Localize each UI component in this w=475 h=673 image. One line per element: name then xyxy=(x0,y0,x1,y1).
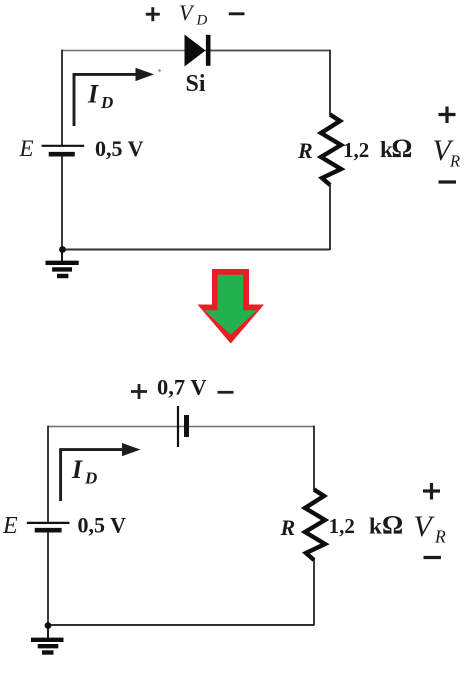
ground (circuit B) xyxy=(31,625,64,653)
resistor R (circuit A zigzag) xyxy=(321,115,341,186)
svg-text:0,5 V: 0,5 V xyxy=(95,136,144,161)
svg-text:Ω: Ω xyxy=(382,510,403,540)
svg-text:k: k xyxy=(369,514,382,539)
svg-text:D: D xyxy=(100,93,113,112)
battery E (circuit B) xyxy=(27,523,70,530)
label 0,5 V (circuit A) xyxy=(95,136,144,161)
node: ground junction (circuit A) xyxy=(59,246,66,253)
resistor R (circuit B zigzag) xyxy=(305,490,325,561)
battery 0,7 V in top wire (circuit B) xyxy=(178,406,187,447)
label I_D (circuit B) xyxy=(71,455,97,488)
label: minus sign of V_R (circuit B) xyxy=(424,556,442,559)
wire: circuit B bottom xyxy=(48,624,314,626)
wire: circuit A right (split by resistor R) xyxy=(329,50,331,250)
svg-text:R: R xyxy=(434,527,446,547)
wire: circuit B right (split by resistor R) xyxy=(313,426,315,626)
label E (circuit B) xyxy=(2,513,18,539)
diode D1 (Si) xyxy=(185,35,209,67)
label 1,2 kOhm (circuit B) xyxy=(329,510,404,540)
svg-text:Si: Si xyxy=(186,71,206,97)
label V_D xyxy=(179,0,208,29)
svg-text:E: E xyxy=(2,513,18,539)
label: minus sign of 0,7 V (circuit B) xyxy=(218,391,234,394)
label: minus sign of V_D xyxy=(229,12,245,15)
label: plus sign of V_R (circuit B) xyxy=(423,483,440,500)
svg-text:R: R xyxy=(297,138,313,163)
label 0,5 V (circuit B) xyxy=(78,513,127,538)
wire: circuit A left (split by battery E) xyxy=(61,50,63,250)
wire: circuit A top (left node to diode to right corner) xyxy=(62,50,330,52)
node: ground junction (circuit B) xyxy=(45,622,52,629)
svg-text:R: R xyxy=(449,152,460,171)
label: plus sign of 0,7 V (circuit B) xyxy=(131,384,147,399)
wire: circuit B top xyxy=(48,426,314,428)
label Si xyxy=(186,71,206,97)
svg-text:1,2: 1,2 xyxy=(343,138,369,162)
label 1,2 kOhm (circuit A) xyxy=(343,134,412,163)
svg-text:0,7 V: 0,7 V xyxy=(157,375,207,400)
ground (circuit A) xyxy=(46,250,79,277)
svg-text:Ω: Ω xyxy=(392,134,413,163)
svg-text:V: V xyxy=(414,510,436,543)
label: minus sign of V_R (circuit A) xyxy=(439,180,457,183)
svg-text:I: I xyxy=(87,80,99,109)
label E (circuit A) xyxy=(19,136,34,161)
label: plus sign of V_R (circuit A) xyxy=(439,107,456,124)
svg-text:R: R xyxy=(280,515,296,540)
label 0,7 V (circuit B) xyxy=(157,375,207,400)
wire: circuit B left (split by battery E) xyxy=(47,426,49,626)
svg-text:0,5 V: 0,5 V xyxy=(78,513,127,538)
wire: circuit A bottom xyxy=(62,249,330,251)
transformation arrow (green fill, red outline) xyxy=(198,269,265,344)
svg-text:1,2: 1,2 xyxy=(329,514,355,538)
svg-text:I: I xyxy=(71,455,83,484)
svg-text:D: D xyxy=(84,469,97,488)
label R (circuit B) xyxy=(280,515,296,540)
current arrow I_D (circuit B) xyxy=(61,443,141,501)
label R (circuit A) xyxy=(297,138,313,163)
svg-text:V: V xyxy=(179,0,195,25)
battery E (circuit A) xyxy=(42,146,85,154)
current arrow I_D (circuit A) xyxy=(74,68,161,126)
svg-text:D: D xyxy=(196,13,208,29)
label V_R (circuit A) xyxy=(433,134,461,171)
label: plus sign of V_D xyxy=(146,7,160,21)
label V_R (circuit B) xyxy=(414,510,447,547)
svg-text:E: E xyxy=(19,136,34,161)
label I_D (circuit A) xyxy=(87,80,113,113)
